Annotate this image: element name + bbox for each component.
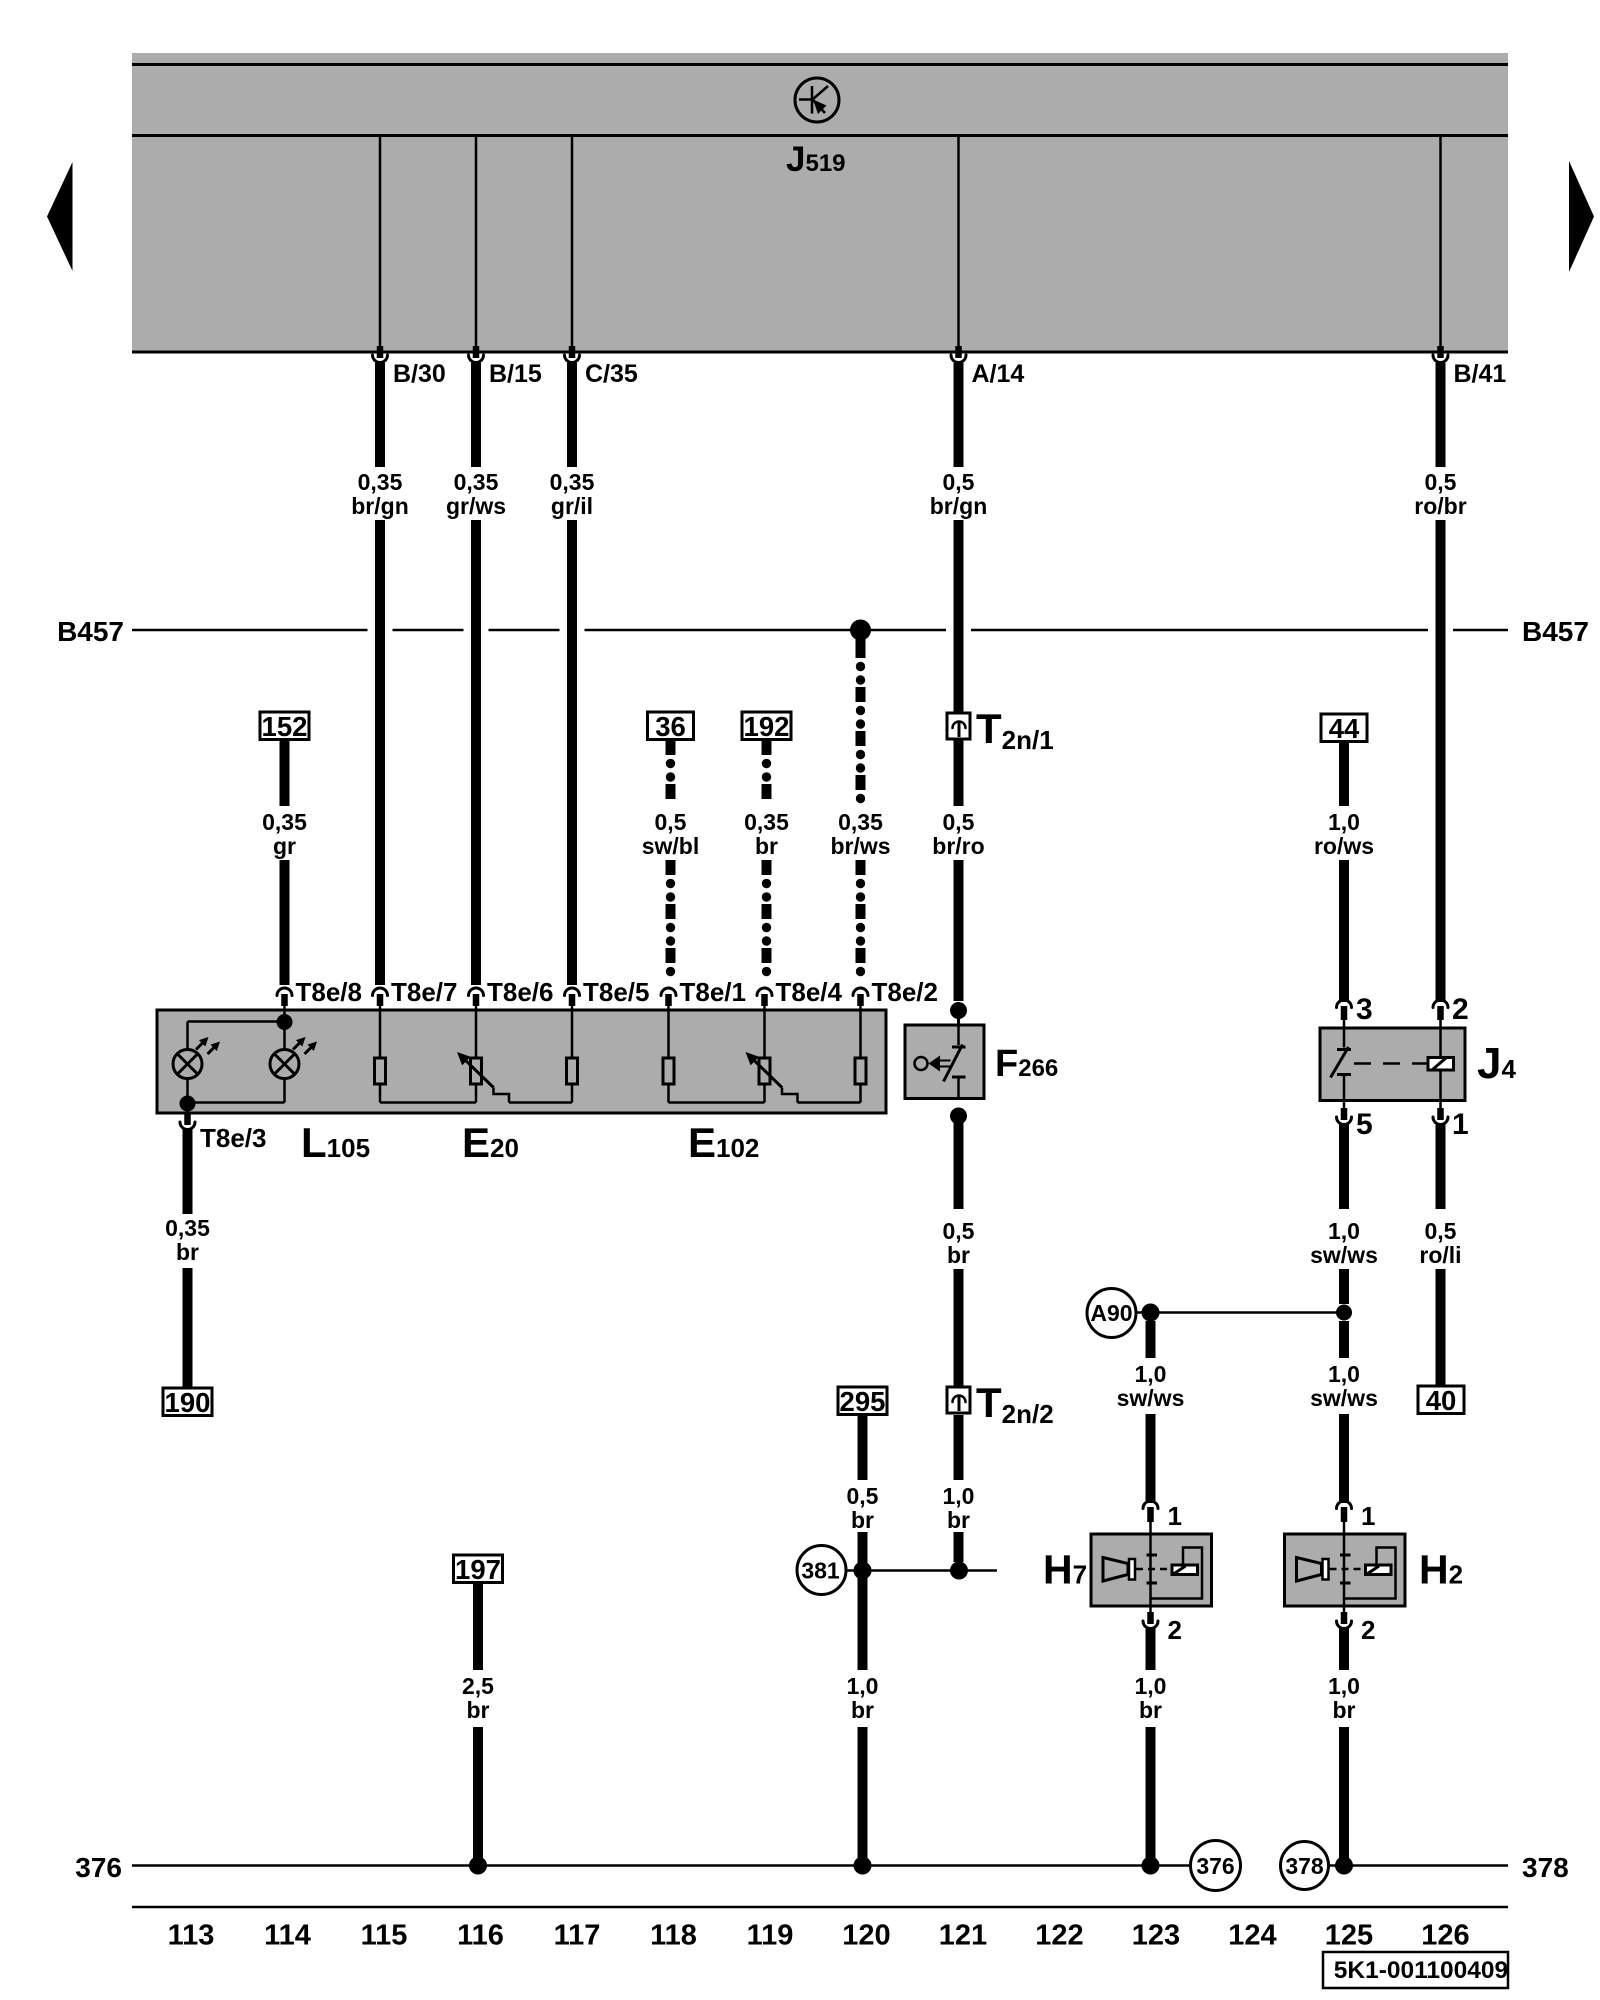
svg-text:36: 36: [655, 711, 686, 742]
wire 0,5 br below box 295: [858, 1415, 868, 1480]
svg-text:sw/ws: sw/ws: [1117, 1385, 1185, 1411]
ground line 378: [1329, 1864, 1508, 1867]
wire 0,5 ro/li from J4 pin 1: [1436, 1124, 1446, 1209]
svg-text:B/41: B/41: [1454, 360, 1507, 388]
svg-text:5K1-001100409: 5K1-001100409: [1334, 1957, 1508, 1984]
svg-text:378: 378: [1522, 1852, 1569, 1883]
svg-text:123: 123: [1132, 1920, 1180, 1952]
svg-text:br: br: [947, 1242, 970, 1268]
connector pin B/30 at J519: [377, 346, 384, 358]
svg-text:B457: B457: [57, 616, 124, 647]
lamp L105a: [173, 1050, 202, 1079]
svg-text:376: 376: [1196, 1853, 1234, 1879]
svg-text:1,0: 1,0: [1328, 1218, 1360, 1244]
wire 0,35 gr/ws from B/15 (track 116): [471, 363, 481, 467]
svg-text:1,0: 1,0: [1135, 1673, 1167, 1699]
svg-text:sw/ws: sw/ws: [1310, 1242, 1378, 1268]
switch F266 body: [905, 1025, 984, 1099]
svg-text:5: 5: [1356, 1108, 1373, 1141]
ground reference circle 378: [1281, 1842, 1329, 1890]
svg-text:br: br: [1139, 1697, 1162, 1723]
svg-text:118: 118: [650, 1920, 697, 1952]
svg-text:1,0: 1,0: [1328, 1673, 1360, 1699]
wiper arrow of E102: [754, 1060, 782, 1087]
svg-text:114: 114: [264, 1920, 311, 1952]
wire 0,35 br/gn from B/30 (track 115): [375, 363, 385, 467]
svg-text:1: 1: [1452, 1108, 1469, 1141]
svg-text:ro/ws: ro/ws: [1314, 833, 1374, 859]
wire reference box 190: [163, 1388, 212, 1416]
connector T8e/5 at component box top: [565, 988, 580, 996]
svg-text:192: 192: [744, 711, 790, 742]
J519 internal lead to pin B/15: [475, 137, 478, 346]
push actuator of F266: [915, 1057, 928, 1070]
connection reference A90: [1087, 1289, 1136, 1338]
svg-text:br/ws: br/ws: [830, 833, 890, 859]
wire 1,0 br from H7 pin 2: [1146, 1627, 1156, 1670]
svg-text:br/ro: br/ro: [932, 833, 984, 859]
svg-text:1,0: 1,0: [943, 1483, 975, 1509]
svg-text:126: 126: [1421, 1920, 1469, 1952]
svg-text:2: 2: [1361, 1615, 1375, 1645]
dotted wire 0,35 br from box 192 (track 119): [762, 740, 772, 755]
junction node track 123: [1142, 1304, 1160, 1322]
J519 internal lead to pin A/14: [957, 137, 960, 346]
svg-text:1,0: 1,0: [1135, 1361, 1167, 1387]
connector T8e/4 at component box top: [757, 988, 772, 996]
svg-text:br: br: [467, 1697, 490, 1723]
svg-text:T8e/2: T8e/2: [872, 977, 939, 1007]
svg-text:152: 152: [262, 711, 308, 742]
ground reference circle 376: [1191, 1841, 1241, 1891]
L105 bottom rail and node: [186, 1079, 189, 1104]
svg-text:T8e/4: T8e/4: [776, 977, 843, 1007]
right direction arrow: [1569, 161, 1594, 272]
wire reference box 44: [1321, 714, 1367, 742]
wire 0,5 ro/br from B/41 (track 126): [1436, 363, 1446, 467]
svg-text:A90: A90: [1090, 1300, 1132, 1326]
wire reference box 152: [260, 712, 309, 740]
svg-text:br: br: [851, 1507, 874, 1533]
junction node track 120: [854, 1562, 872, 1580]
svg-text:T8e/5: T8e/5: [583, 977, 650, 1007]
svg-text:0,5: 0,5: [655, 809, 687, 835]
potentiometer element of E20: [475, 1013, 478, 1058]
horn relay J4 body: [1320, 1028, 1465, 1101]
relay actuation dashed link: [1354, 1062, 1427, 1065]
svg-text:0,35: 0,35: [550, 469, 595, 495]
vibrator contact of H2: [1343, 1534, 1346, 1599]
svg-text:T8e/8: T8e/8: [296, 977, 363, 1007]
wire 1,0 br below T2n/2: [954, 1415, 964, 1480]
instrument illumination component box (L105 E20 E102): [157, 1010, 886, 1113]
svg-text:br: br: [176, 1239, 199, 1265]
svg-text:124: 124: [1228, 1920, 1276, 1952]
svg-text:120: 120: [842, 1920, 890, 1952]
svg-text:T8e/1: T8e/1: [680, 977, 747, 1007]
wire 1,0 ro/ws from box 44 (track 125): [1339, 741, 1349, 806]
trumpet symbol of H7: [1103, 1558, 1128, 1582]
wire segment into box 40: [1436, 1269, 1446, 1386]
wire reference box 192: [742, 712, 791, 740]
svg-text:0,5: 0,5: [1425, 469, 1457, 495]
connector T8e/8 at component box top: [277, 988, 292, 996]
svg-text:2,5: 2,5: [462, 1673, 494, 1699]
link line from 381: [845, 1569, 998, 1572]
svg-text:br: br: [1333, 1697, 1356, 1723]
junction node on B457 at track 120: [850, 620, 871, 641]
wire 0,5 br/ro below T2n/1: [954, 739, 964, 806]
connector pin 2 of H2: [1343, 1606, 1346, 1612]
wire 1,0 sw/ws to H7: [1146, 1321, 1156, 1358]
membrane link of H2: [1330, 1568, 1366, 1571]
svg-text:125: 125: [1325, 1920, 1373, 1952]
wire reference box 197: [454, 1555, 503, 1583]
connector T8e/6 at component box top: [469, 988, 484, 996]
lamp L105b: [270, 1050, 299, 1079]
svg-text:0,35: 0,35: [744, 809, 789, 835]
J519 internal lead to pin B/41: [1439, 137, 1442, 346]
connector pin 2 of J4: [1433, 1000, 1448, 1007]
junction node track 116: [469, 1857, 487, 1875]
connector pin 1 of H2: [1337, 1501, 1352, 1508]
wire 0,35 br from T8e/3 (track 113): [183, 1129, 193, 1214]
horn H7 body: [1091, 1534, 1212, 1606]
svg-text:1,0: 1,0: [1328, 1361, 1360, 1387]
J519 internal lead to pin C/35: [571, 137, 574, 346]
regulator E102 internal wiring: [667, 1013, 670, 1058]
svg-text:197: 197: [455, 1554, 501, 1585]
lamp circuit L105 internal wiring: [283, 1013, 286, 1018]
svg-text:121: 121: [939, 1920, 987, 1952]
connector pin 1 of J4: [1439, 1101, 1442, 1109]
svg-text:gr/ws: gr/ws: [446, 493, 506, 519]
svg-text:A/14: A/14: [972, 360, 1025, 388]
connector T8e/7 at component box top: [373, 988, 388, 996]
svg-text:1,0: 1,0: [1328, 809, 1360, 835]
svg-text:B/30: B/30: [393, 360, 446, 388]
svg-text:ro/br: ro/br: [1414, 493, 1466, 519]
svg-text:0,5: 0,5: [943, 1218, 975, 1244]
connector pin B/15 at J519: [473, 346, 480, 358]
wire segment J4/5 to node: [1339, 1269, 1349, 1304]
dotted wire 0,35 br/ws from B457 junction (track 120): [856, 630, 866, 658]
svg-text:2: 2: [1168, 1615, 1182, 1645]
svg-text:378: 378: [1285, 1853, 1324, 1879]
coil circuit of H2: [1344, 1548, 1396, 1599]
connector T8e/3 at component box bottom: [184, 1113, 191, 1125]
wire 1,0 sw/ws to H2: [1339, 1321, 1349, 1358]
svg-text:190: 190: [165, 1387, 211, 1418]
svg-text:295: 295: [840, 1386, 886, 1417]
svg-text:1: 1: [1168, 1501, 1182, 1531]
connector T8e/1 at component box top: [661, 988, 676, 996]
wiper arrow of E20: [465, 1060, 493, 1087]
resistor element of E102: [663, 1058, 674, 1084]
svg-text:40: 40: [1426, 1385, 1457, 1416]
coil circuit of H7: [1151, 1548, 1203, 1599]
diagram reference number box: [1323, 1952, 1508, 1988]
connection reference 381: [797, 1546, 846, 1595]
net line B457: [132, 629, 368, 632]
wire 1,0 sw/ws from J4 pin 5: [1339, 1124, 1349, 1209]
wire 0,35 gr from box 152 (track 114): [280, 740, 290, 806]
relay switch contact inside J4: [1343, 1028, 1346, 1048]
dimmer E20 internal wiring: [379, 1013, 382, 1058]
svg-text:gr: gr: [273, 833, 296, 859]
connector pin 3 of J4: [1337, 1000, 1352, 1007]
svg-text:0,5: 0,5: [847, 1483, 879, 1509]
connector pin 5 of J4: [1343, 1101, 1346, 1109]
potentiometer element of E102: [763, 1013, 766, 1058]
resistor element under T8e/2: [859, 1013, 862, 1058]
connector pin A/14 at J519: [955, 346, 962, 358]
wire 1,0 br from H2 pin 2: [1339, 1627, 1349, 1670]
wire link from A90 to horns: [1136, 1311, 1344, 1314]
svg-text:0,5: 0,5: [943, 469, 975, 495]
svg-text:0,5: 0,5: [1425, 1218, 1457, 1244]
svg-text:T8e/7: T8e/7: [391, 977, 458, 1007]
svg-text:T8e/3: T8e/3: [200, 1123, 267, 1153]
wire 0,35 gr/il from C/35 (track 117): [567, 363, 577, 467]
svg-text:br: br: [947, 1507, 970, 1533]
connector pin B/41 at J519: [1437, 346, 1444, 358]
inline connector T2n/2 on horn control wire: [947, 1387, 970, 1413]
svg-text:T8e/6: T8e/6: [487, 977, 554, 1007]
svg-text:0,5: 0,5: [943, 809, 975, 835]
wire 2,5 br from box 197 (track 116): [473, 1583, 483, 1670]
resistor element of E20: [375, 1058, 386, 1084]
svg-text:122: 122: [1035, 1920, 1083, 1952]
svg-text:44: 44: [1329, 713, 1360, 744]
current track baseline: [132, 1906, 1508, 1909]
svg-text:B/15: B/15: [489, 360, 542, 388]
svg-text:113: 113: [168, 1920, 215, 1952]
wire segment through junction 381: [858, 1532, 868, 1670]
connector pin 1 of H7: [1143, 1501, 1158, 1508]
dotted wire 0,5 sw/bl from box 36 (track 118): [666, 740, 676, 755]
svg-text:gr/il: gr/il: [551, 493, 593, 519]
wire segment to junction: [954, 1532, 964, 1562]
svg-text:br: br: [755, 833, 778, 859]
left direction arrow: [47, 162, 73, 271]
junction node track 120: [854, 1857, 872, 1875]
wire segment A/14 into T2n/2: [954, 1269, 964, 1387]
wire segment into box 190: [183, 1268, 193, 1388]
svg-text:115: 115: [361, 1920, 408, 1952]
svg-text:sw/ws: sw/ws: [1310, 1385, 1378, 1411]
svg-text:ro/li: ro/li: [1419, 1242, 1461, 1268]
resistor element under T8e/5: [571, 1013, 574, 1058]
svg-text:117: 117: [554, 1920, 601, 1952]
wire segment to ground line 376: [858, 1727, 868, 1865]
wire reference box 40: [1418, 1386, 1464, 1414]
svg-text:381: 381: [801, 1558, 840, 1584]
svg-text:0,35: 0,35: [358, 469, 403, 495]
svg-text:0,35: 0,35: [262, 809, 307, 835]
switch contact of F266: [957, 1025, 960, 1045]
horn H2 body: [1285, 1534, 1406, 1606]
svg-text:sw/bl: sw/bl: [642, 833, 700, 859]
svg-text:376: 376: [75, 1852, 122, 1883]
wire node above F266: [950, 1002, 967, 1019]
junction node track 125: [1336, 1305, 1352, 1321]
connector pin 2 of H7: [1149, 1606, 1152, 1612]
svg-text:C/35: C/35: [585, 360, 638, 388]
junction node end of A/14 branch: [950, 1562, 968, 1580]
ground line 376: [132, 1864, 1191, 1867]
wire 0,5 br/gn from A/14 (track 121): [954, 363, 964, 467]
svg-text:1,0: 1,0: [847, 1673, 879, 1699]
svg-text:116: 116: [457, 1920, 504, 1952]
junction node track 123: [1142, 1857, 1160, 1875]
bus/terminal symbol inside J519: [795, 78, 839, 122]
svg-text:3: 3: [1356, 993, 1373, 1026]
svg-text:0,35: 0,35: [165, 1215, 210, 1241]
svg-text:br/gn: br/gn: [930, 493, 988, 519]
connector pin C/35 at J519: [569, 346, 576, 358]
vibrator contact of H7: [1149, 1534, 1152, 1599]
svg-text:br: br: [851, 1697, 874, 1723]
svg-text:br/gn: br/gn: [351, 493, 409, 519]
membrane link of H7: [1136, 1568, 1172, 1571]
svg-text:119: 119: [747, 1920, 794, 1952]
junction node track 125: [1335, 1857, 1353, 1875]
connector T8e/2 at component box top: [853, 988, 868, 996]
wire node below F266: [950, 1108, 967, 1125]
control module J519 body: [132, 53, 1508, 354]
svg-text:1: 1: [1361, 1501, 1375, 1531]
svg-text:2: 2: [1452, 993, 1469, 1026]
trumpet symbol of H2: [1297, 1558, 1322, 1582]
svg-text:0,35: 0,35: [454, 469, 499, 495]
wire 0,5 br below F266: [954, 1121, 964, 1209]
svg-text:0,35: 0,35: [838, 809, 883, 835]
inline connector T2n/1 on A/14 wire: [947, 713, 970, 739]
relay coil of J4: [1439, 1028, 1442, 1058]
wire reference box 295: [838, 1387, 887, 1415]
J519 internal lead to pin B/30: [379, 137, 382, 346]
wire reference box 36: [648, 712, 694, 740]
svg-text:B457: B457: [1522, 616, 1589, 647]
